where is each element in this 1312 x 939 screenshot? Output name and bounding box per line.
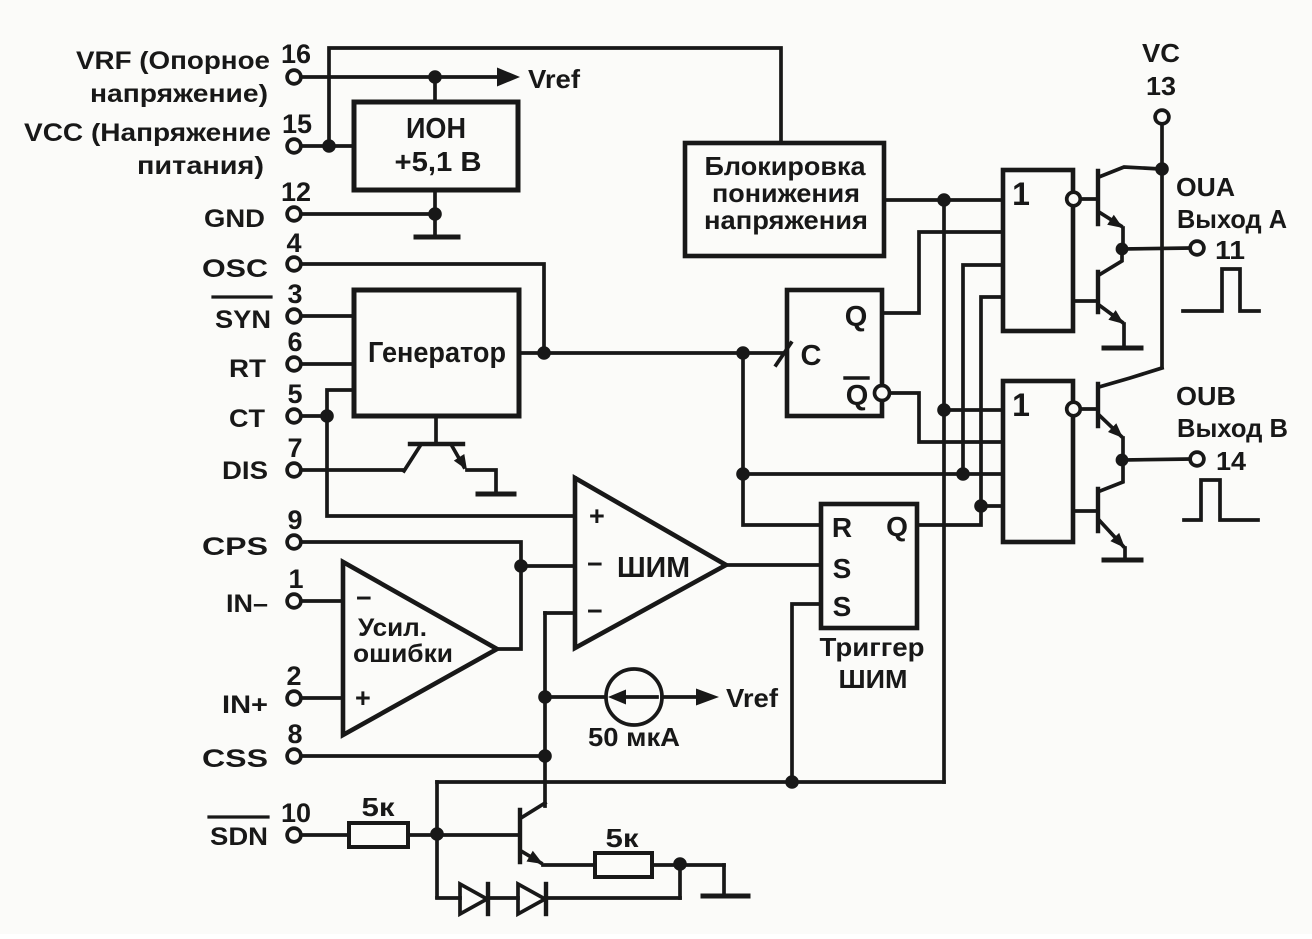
node GND junction <box>428 207 442 221</box>
transistor Q1 discharge base <box>434 416 438 443</box>
label VRF (Опорное <box>76 47 270 75</box>
label OSC <box>202 255 268 283</box>
label напряжение) <box>90 80 268 108</box>
transistor Q5 base bar <box>1096 489 1100 531</box>
label 50 uA <box>588 722 680 752</box>
block U1 ION +5.1V <box>354 102 518 190</box>
svg-text:5к: 5к <box>606 823 640 853</box>
label Vyhod A <box>1177 204 1287 234</box>
wire VC collector rail <box>1160 169 1164 367</box>
svg-text:VRF (Опорное: VRF (Опорное <box>76 47 270 75</box>
wire VC down <box>1160 124 1164 169</box>
wire diode rail left <box>437 896 460 900</box>
label CSS <box>202 745 268 773</box>
transistor Q6 collector <box>521 803 545 818</box>
op-amp U6 error amplifier <box>343 562 497 735</box>
transistor Q6 base bar <box>518 810 522 862</box>
wire blanking up to gate1 input <box>963 265 1002 474</box>
svg-text:8: 8 <box>287 719 302 749</box>
diode VD2 <box>518 884 546 914</box>
wire pin7 DIS <box>301 468 403 472</box>
svg-text:S: S <box>833 553 852 584</box>
node shutdown junction <box>430 827 444 841</box>
wire UV lockout output to gate1 <box>884 198 1002 202</box>
wire pin15 to ION <box>301 144 353 148</box>
svg-text:ШИМ: ШИМ <box>617 552 690 584</box>
svg-text:Генератор: Генератор <box>368 337 506 369</box>
svg-text:14: 14 <box>1216 446 1247 476</box>
pin 8 terminal <box>287 719 302 763</box>
node output A <box>1116 243 1129 256</box>
svg-text:1: 1 <box>288 564 303 594</box>
ground (Q5) <box>1104 558 1141 563</box>
svg-text:−: − <box>587 596 603 626</box>
wire gate D2 to Q5 base <box>1073 509 1098 513</box>
label RT <box>229 355 266 383</box>
wire FF Q to gate1 input <box>882 232 1002 313</box>
waveform output A <box>1183 269 1259 311</box>
svg-text:7: 7 <box>287 433 302 463</box>
diode VD1 <box>460 884 488 914</box>
wire gate D2 to Q4 base <box>1081 407 1098 411</box>
node bottom rail junction <box>785 775 799 789</box>
ground (Q1) <box>478 492 514 497</box>
pin 13 VC terminal <box>1142 38 1180 124</box>
wire pin10 SDN to R1 <box>301 833 349 837</box>
svg-text:Выход В: Выход В <box>1177 413 1288 443</box>
pin 9 terminal <box>287 505 302 549</box>
current source output arrow <box>662 689 719 706</box>
wire pin3 SYN <box>301 314 353 318</box>
node CSS junction <box>538 749 552 763</box>
pin 16 terminal <box>281 39 311 84</box>
wire node down to diodes <box>678 864 682 898</box>
flip-flop clock edge mark <box>776 343 791 365</box>
label OUA <box>1176 172 1235 202</box>
wire PWM bottom input <box>545 611 575 615</box>
wire gate D1 to Q3 base <box>1073 299 1098 303</box>
pin 14 terminal <box>1190 446 1246 476</box>
transistor Q3 emitter with arrow <box>1099 305 1124 324</box>
wire output A to Q3 collector <box>1099 250 1122 275</box>
pin 2 terminal <box>286 661 301 705</box>
node current source junction <box>538 690 552 704</box>
wire output B to pin 14 <box>1123 459 1190 460</box>
svg-text:IN+: IN+ <box>222 691 268 719</box>
svg-text:Q: Q <box>846 380 869 412</box>
wire FF Q-bar to gate2 input <box>890 393 1002 442</box>
pin 6 terminal <box>287 327 302 371</box>
node CT junction <box>320 409 334 423</box>
flip-flop Q-bar bubble <box>875 386 890 401</box>
svg-text:6: 6 <box>287 327 302 357</box>
svg-text:CPS: CPS <box>202 533 268 561</box>
svg-text:5к: 5к <box>362 792 396 822</box>
svg-text:DIS: DIS <box>222 457 268 485</box>
svg-text:Vref: Vref <box>528 64 580 94</box>
svg-text:питания): питания) <box>137 152 264 180</box>
svg-text:10: 10 <box>281 798 311 828</box>
svg-text:−: − <box>356 583 372 613</box>
wire pin1 IN- <box>301 599 343 603</box>
label Vref (current source) <box>726 683 778 713</box>
wire Q2 emitter to output A node <box>1121 228 1125 248</box>
wire pin8 CSS <box>301 754 545 758</box>
svg-text:IN–: IN– <box>226 590 268 618</box>
current source I1 50uA <box>606 669 662 725</box>
svg-text:+: + <box>589 501 605 531</box>
label trigger PWM <box>820 632 925 694</box>
wire R1 to Q6 base <box>408 833 517 837</box>
wire Q1 collector to ground <box>467 470 496 492</box>
svg-text:напряжения: напряжения <box>704 205 868 235</box>
wire Q3 emitter to ground <box>1122 324 1126 347</box>
block U7 PWM trigger <box>821 504 917 628</box>
label GND <box>204 205 265 233</box>
svg-text:Блокировка: Блокировка <box>705 151 867 181</box>
transistor Q3 base bar <box>1096 272 1100 312</box>
svg-text:Q: Q <box>845 301 868 333</box>
label Vyhod B <box>1177 413 1288 443</box>
svg-text:OUA: OUA <box>1176 172 1235 202</box>
svg-text:2: 2 <box>286 661 301 691</box>
svg-text:SDN: SDN <box>210 823 268 851</box>
node VCC junction <box>322 139 336 153</box>
svg-text:Vref: Vref <box>726 683 778 713</box>
wire clock down to trigger R <box>743 353 821 525</box>
pin 12 terminal <box>281 177 311 221</box>
wire output B to Q5 collector <box>1100 461 1123 491</box>
wire pin12 GND <box>301 212 435 216</box>
wire UV net down to bottom rail <box>942 200 946 782</box>
pin 1 terminal <box>287 564 303 608</box>
node UV output junction <box>937 193 951 207</box>
svg-text:C: C <box>801 340 822 372</box>
wire Q5 emitter to ground <box>1123 548 1127 559</box>
svg-text:RT: RT <box>229 355 266 383</box>
wire output A to pin 11 <box>1122 248 1190 249</box>
label IN+ <box>222 691 268 719</box>
ground (bottom right) <box>703 894 748 899</box>
wire to ground (bottom) <box>722 865 726 894</box>
svg-text:+: + <box>355 683 371 713</box>
gate D1 NOR (1) <box>1003 170 1073 331</box>
wire gate D1 to Q2 base <box>1081 197 1098 201</box>
label питания) <box>137 152 264 180</box>
label SYN (with overline) <box>213 297 271 334</box>
svg-text:1: 1 <box>1012 176 1030 212</box>
wire PWM output to trigger S <box>726 563 821 567</box>
gate D1 output bubble <box>1067 192 1081 206</box>
svg-text:CT: CT <box>229 405 265 433</box>
node clock junction <box>736 346 750 360</box>
wire CT down to PWM + input <box>327 416 575 516</box>
svg-text:16: 16 <box>281 39 311 69</box>
gate D2 output bubble <box>1067 402 1081 416</box>
wire trigger S2 to bottom rail <box>792 604 821 782</box>
ground (Q3) <box>1104 346 1141 351</box>
transistor Q1 emitter <box>404 446 420 471</box>
wire soft-start vertical <box>543 613 547 806</box>
svg-text:50 мкА: 50 мкА <box>588 722 680 752</box>
node Vref junction <box>428 70 442 84</box>
node trigger Q junction <box>974 499 988 513</box>
transistor Q4 emitter with arrow <box>1099 415 1123 438</box>
pin 15 terminal <box>282 109 312 153</box>
block U4 flip-flop <box>787 290 882 416</box>
transistor Q4 base bar <box>1096 384 1100 426</box>
wire pin6 RT <box>301 362 353 366</box>
svg-text:ошибки: ошибки <box>353 640 453 668</box>
node R2 output junction <box>673 857 687 871</box>
transistor Q1 collector with arrow <box>452 446 467 470</box>
svg-text:VC: VC <box>1142 38 1180 68</box>
node blanking-gate1 junction <box>956 467 970 481</box>
wire node to PWM - input <box>521 564 575 568</box>
wire trigger Q to gates <box>917 506 981 525</box>
wire pin9 CPS <box>301 542 521 566</box>
node VC junction <box>1155 162 1169 176</box>
transistor Q1 base bar <box>410 442 463 446</box>
block U3 undervoltage lockout <box>685 143 884 256</box>
wire R2 to ground node <box>652 863 724 867</box>
resistor R1 5k <box>349 792 408 847</box>
svg-text:9: 9 <box>287 505 302 535</box>
label Vref (top) <box>528 64 580 94</box>
gate D2 NOR (1) <box>1003 381 1073 542</box>
svg-text:Выход А: Выход А <box>1177 204 1287 234</box>
node output B <box>1116 454 1129 467</box>
svg-text:напряжение): напряжение) <box>90 80 268 108</box>
svg-text:−: − <box>587 549 603 579</box>
wire blanking to gates <box>743 472 1002 476</box>
svg-text:3: 3 <box>287 279 302 309</box>
pin 10 terminal <box>281 798 311 842</box>
transistor Q5 emitter with arrow <box>1099 520 1125 548</box>
wire pin2 IN+ <box>301 696 343 700</box>
wire Q6 emitter to R2 <box>543 863 595 867</box>
svg-text:11: 11 <box>1215 235 1245 265</box>
wire generator output to flip-flop C <box>519 351 782 355</box>
label OUB <box>1176 381 1236 411</box>
wire VCC rail to UV lockout <box>329 48 781 146</box>
svg-text:4: 4 <box>286 228 301 258</box>
label IN- <box>226 590 268 618</box>
svg-text:Q: Q <box>886 511 908 542</box>
pin 4 terminal <box>286 228 301 271</box>
wire trigger Q up to gate1 input <box>981 297 1002 506</box>
node PWM inverting junction <box>514 559 528 573</box>
wire Vref node to ION top <box>433 77 437 101</box>
pin 3 terminal <box>287 279 302 323</box>
wire trigger Q to gate2 input <box>981 504 1002 508</box>
wire Q4 emitter to output B node <box>1121 438 1125 459</box>
pin 7 terminal <box>287 433 302 477</box>
svg-text:понижения: понижения <box>712 178 860 208</box>
waveform output B <box>1184 480 1258 520</box>
transistor Q2 base bar <box>1096 171 1100 224</box>
wire CT to generator <box>327 390 353 416</box>
svg-text:VCC (Напряжение: VCC (Напряжение <box>24 119 271 147</box>
label CT <box>229 405 265 433</box>
svg-text:OSC: OSC <box>202 255 268 283</box>
svg-text:GND: GND <box>204 205 265 233</box>
label DIS <box>222 457 268 485</box>
transistor Q6 emitter with arrow <box>521 851 543 864</box>
svg-text:OUB: OUB <box>1176 381 1236 411</box>
wire pin5 CT <box>301 414 327 418</box>
svg-text:Усил.: Усил. <box>358 614 427 642</box>
wire ION bottom to ground <box>433 191 437 236</box>
transistor Q2 collector <box>1099 167 1161 177</box>
wire diodes to node <box>548 896 680 900</box>
node generator output junction <box>537 346 551 360</box>
svg-text:ИОН: ИОН <box>406 113 466 145</box>
svg-text:R: R <box>832 512 852 543</box>
wire UV net to gate2 input <box>944 408 1002 412</box>
svg-text:1: 1 <box>1012 387 1030 423</box>
wire node down to error amp output <box>497 566 521 649</box>
wire pin4 OSC to generator output <box>301 264 544 353</box>
transistor Q4 collector <box>1099 368 1162 387</box>
op-amp U5 PWM comparator <box>575 478 726 648</box>
resistor R2 5k <box>595 823 652 877</box>
label CPS <box>202 533 268 561</box>
block U2 generator <box>354 290 519 416</box>
pin 5 terminal <box>287 379 302 423</box>
wire between diodes <box>490 896 518 900</box>
wire shutdown vertical <box>435 782 439 897</box>
transistor Q2 emitter with arrow <box>1099 212 1123 228</box>
wire pin16 to Vref node <box>301 75 435 79</box>
node blanking junction <box>736 467 750 481</box>
svg-text:ШИМ: ШИМ <box>839 664 908 694</box>
svg-text:5: 5 <box>287 379 302 409</box>
node UV-gate2 junction <box>937 403 951 417</box>
Vref output arrow <box>435 68 520 87</box>
svg-text:SYN: SYN <box>215 306 271 334</box>
pin 11 terminal <box>1190 235 1245 265</box>
wire node to current source <box>545 695 606 699</box>
svg-text:Триггер: Триггер <box>820 632 925 662</box>
svg-text:12: 12 <box>281 177 311 207</box>
label SDN (with overline) <box>209 817 268 851</box>
svg-text:S: S <box>833 591 852 622</box>
svg-text:15: 15 <box>282 109 312 139</box>
svg-text:CSS: CSS <box>202 745 268 773</box>
wire bottom rail <box>437 780 944 784</box>
svg-text:+5,1 В: +5,1 В <box>395 146 482 177</box>
svg-text:13: 13 <box>1146 71 1176 101</box>
label VCC (Напряжение <box>24 119 271 147</box>
ground (ION) <box>416 235 458 240</box>
